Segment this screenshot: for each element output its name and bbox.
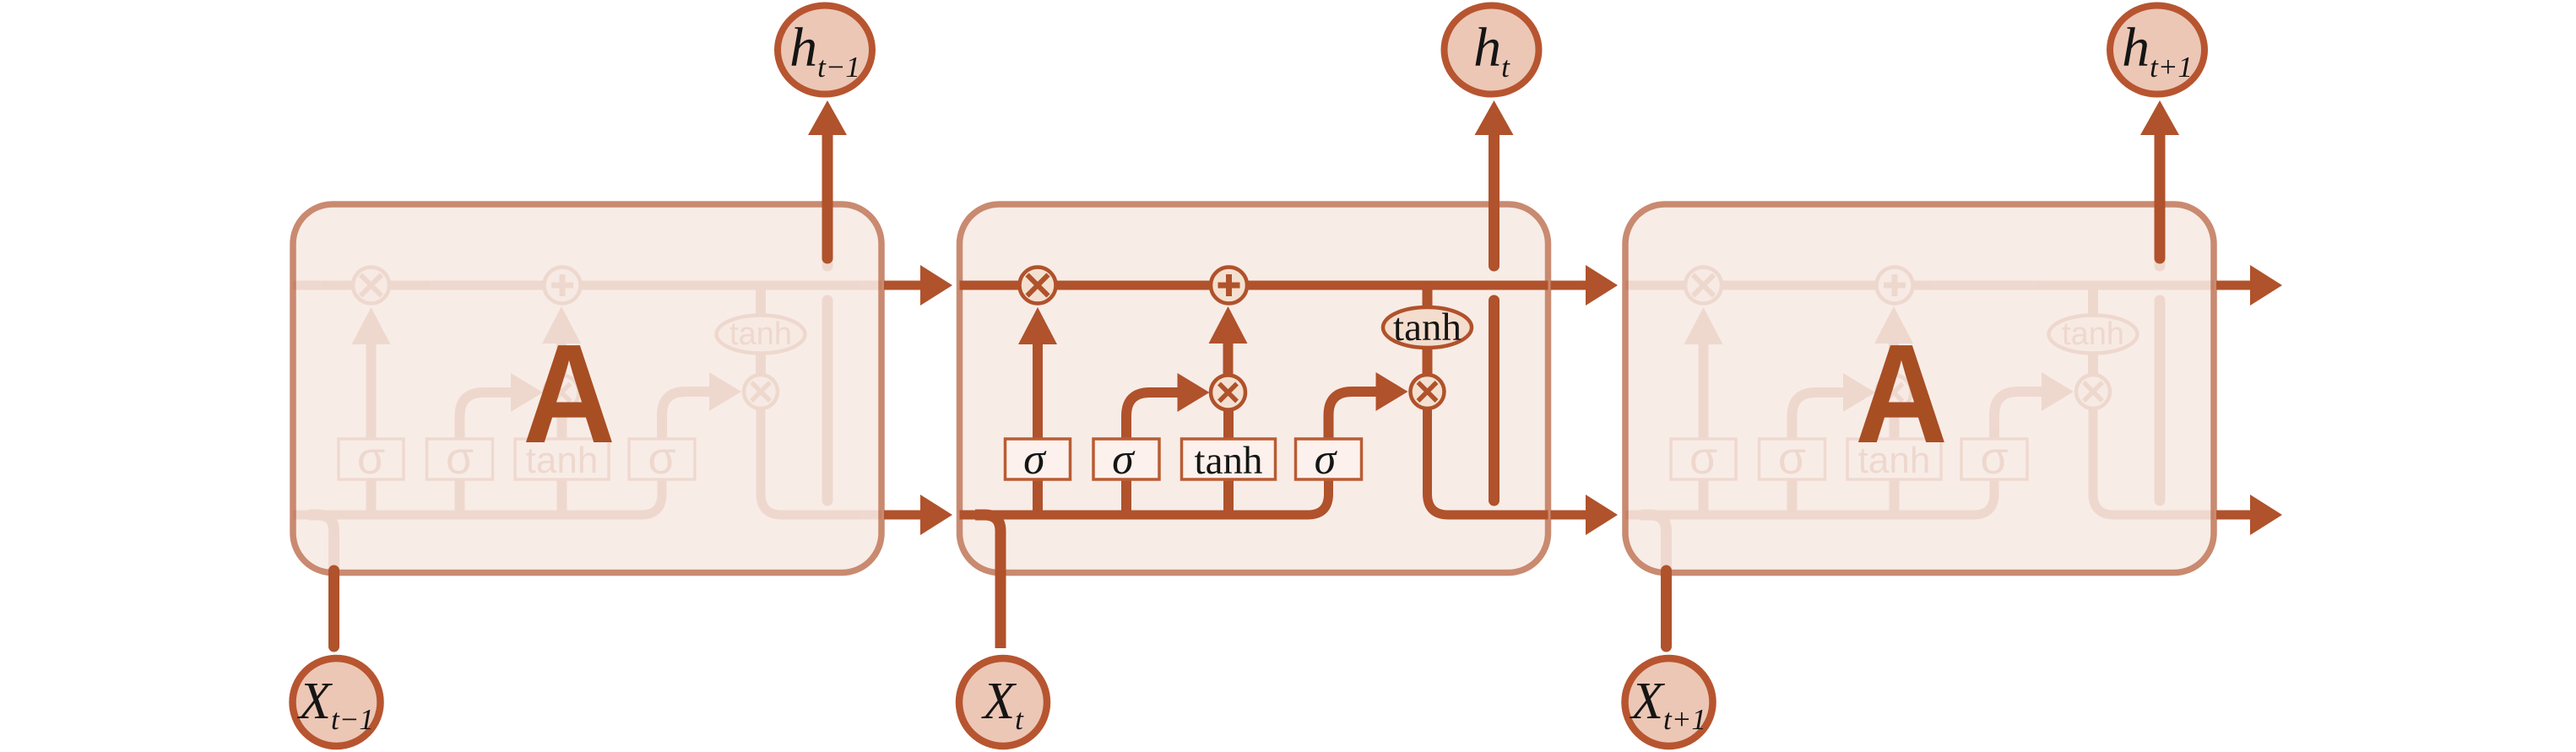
svg-text:A: A [523,314,616,472]
svg-text:A: A [1855,314,1948,472]
